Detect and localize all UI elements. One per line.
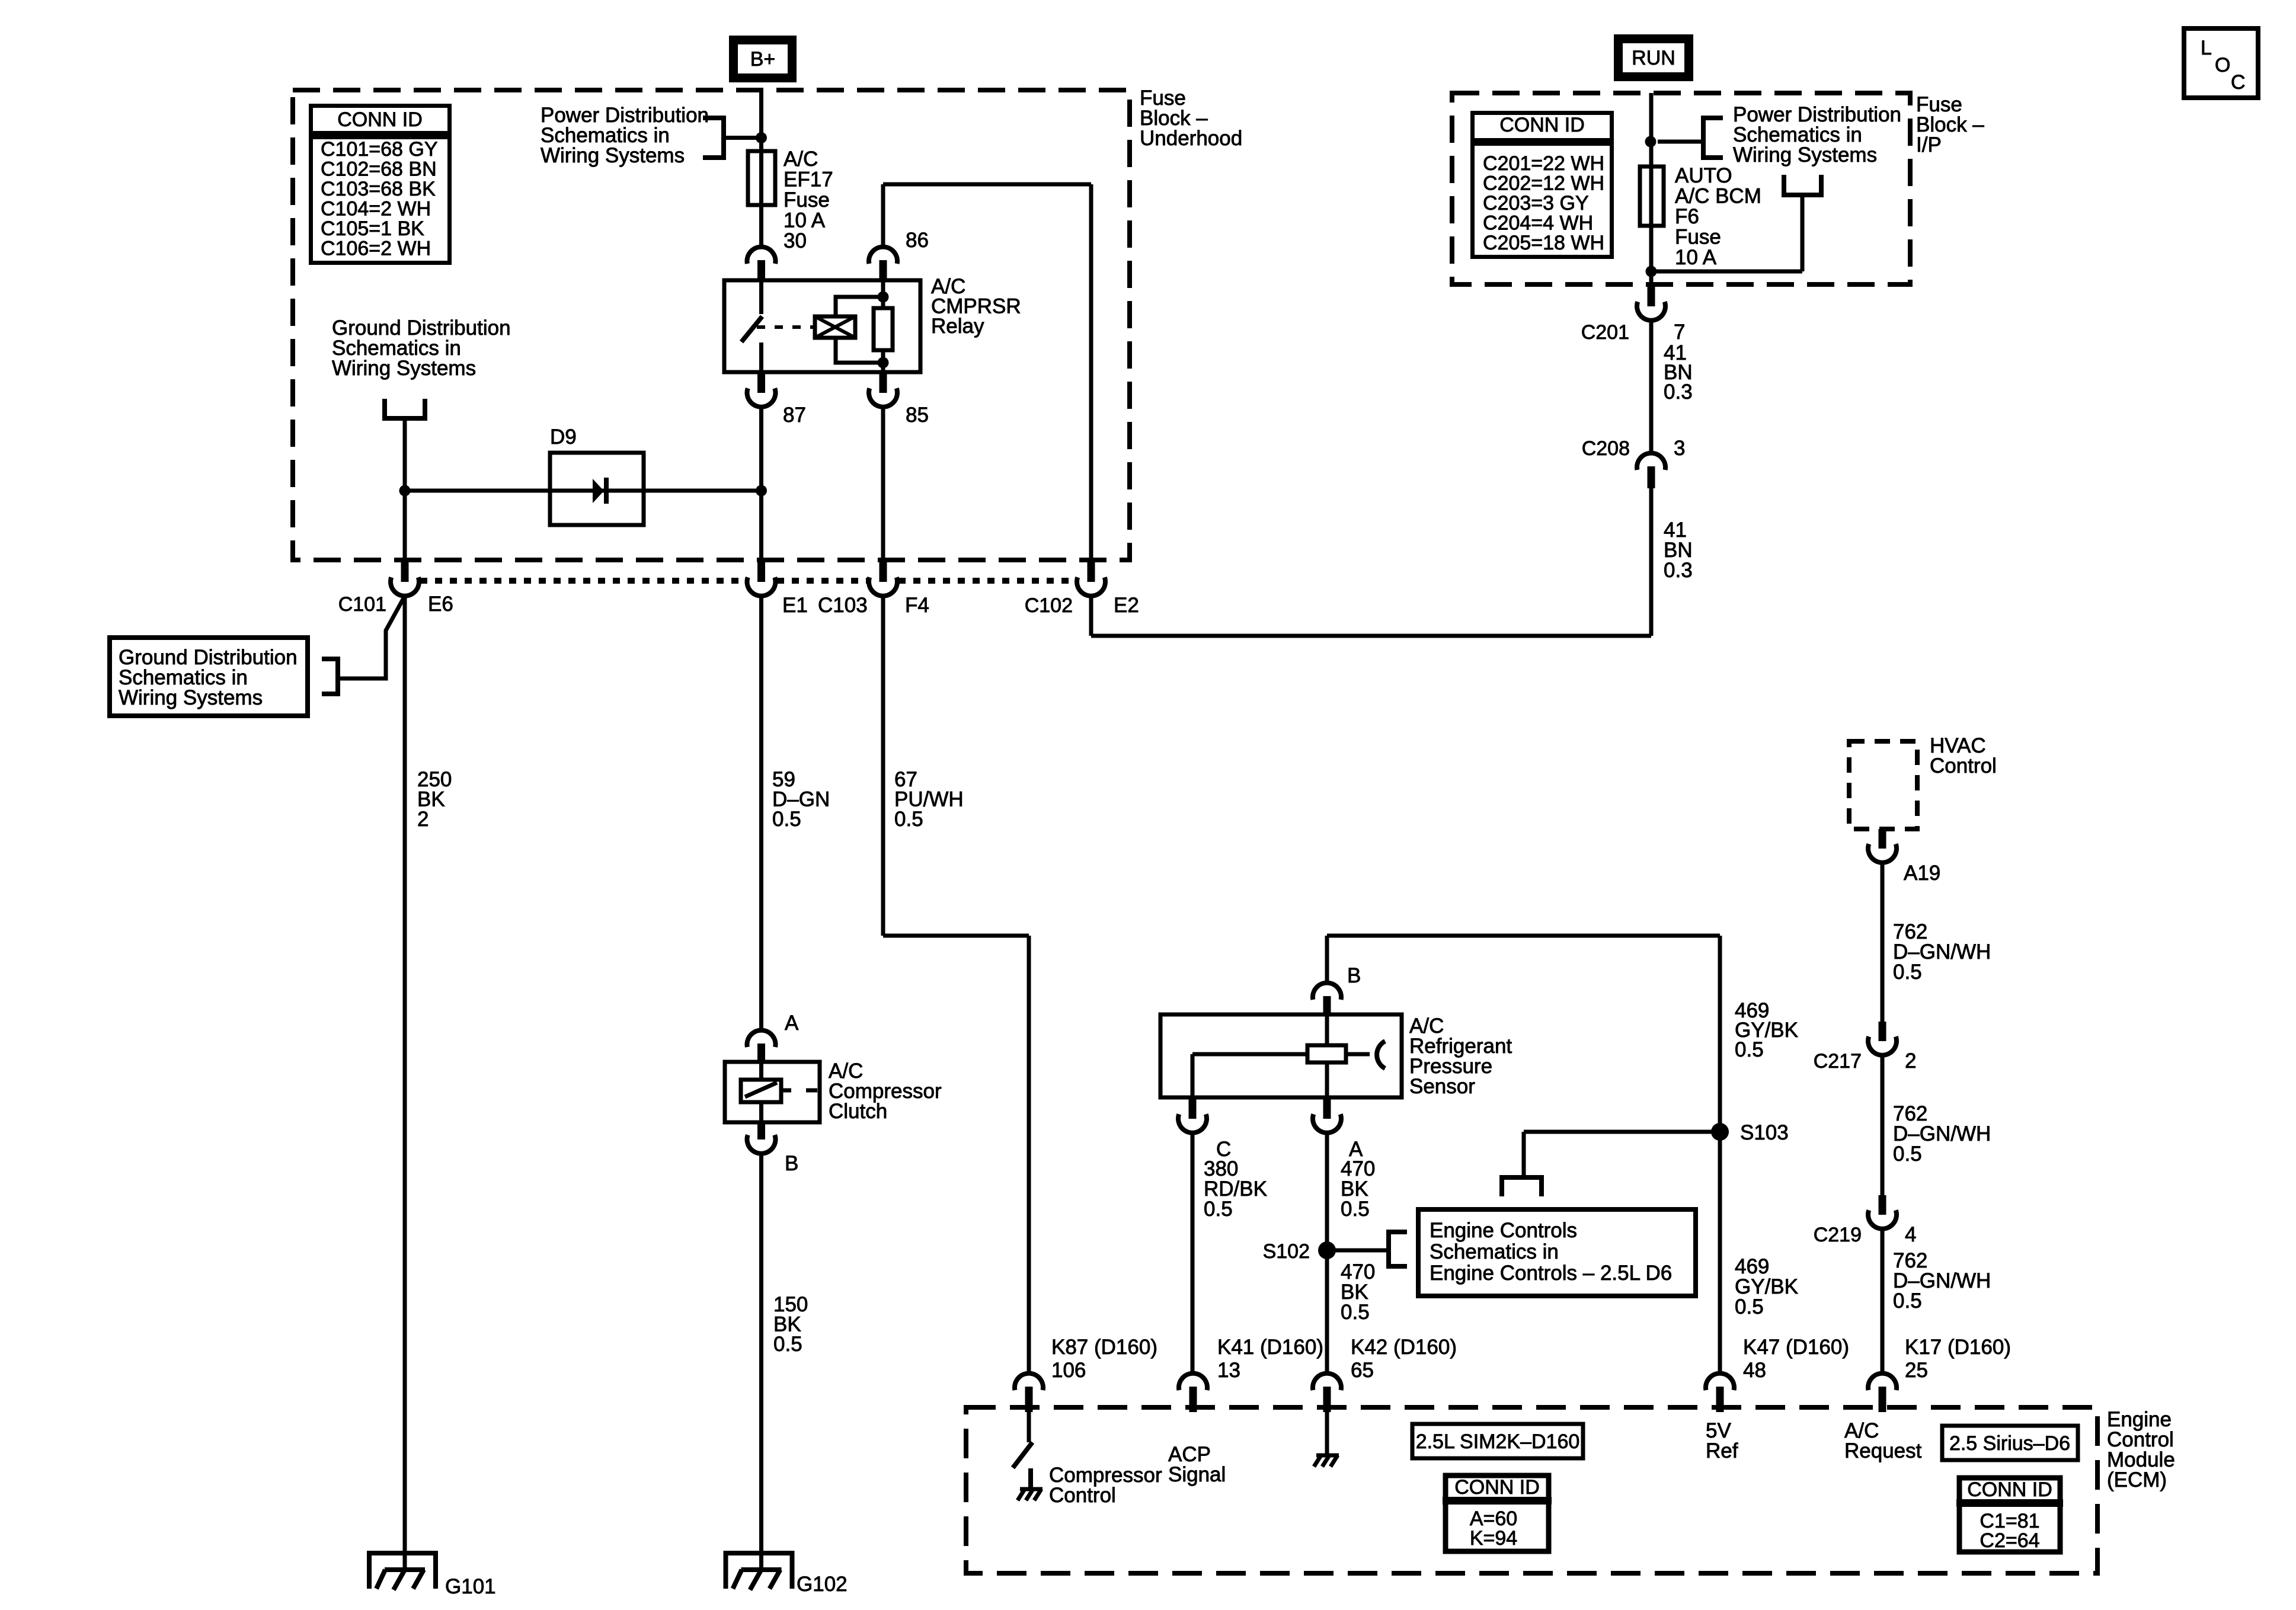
svg-text:EF17: EF17 — [784, 168, 833, 191]
svg-text:C219: C219 — [1814, 1224, 1862, 1246]
svg-text:B+: B+ — [750, 48, 776, 71]
svg-text:0.5: 0.5 — [1204, 1198, 1233, 1221]
svg-text:O: O — [2215, 54, 2230, 76]
svg-text:K42 (D160): K42 (D160) — [1351, 1336, 1457, 1359]
svg-text:C203=3 GY: C203=3 GY — [1483, 192, 1589, 215]
svg-text:Engine Controls – 2.5L D6: Engine Controls – 2.5L D6 — [1430, 1262, 1672, 1285]
svg-text:F4: F4 — [905, 594, 929, 617]
svg-text:K17 (D160): K17 (D160) — [1905, 1336, 2011, 1359]
svg-text:0.3: 0.3 — [1664, 559, 1693, 582]
svg-text:C103: C103 — [818, 594, 868, 617]
svg-text:0.5: 0.5 — [1735, 1295, 1764, 1318]
svg-text:G102: G102 — [797, 1573, 848, 1596]
svg-text:C202=12 WH: C202=12 WH — [1483, 172, 1604, 195]
svg-text:E6: E6 — [428, 593, 453, 616]
svg-text:A/C BCM: A/C BCM — [1675, 185, 1761, 208]
svg-text:Control: Control — [1049, 1484, 1116, 1507]
svg-text:B: B — [785, 1152, 798, 1175]
svg-text:C104=2 WH: C104=2 WH — [321, 198, 431, 220]
svg-text:Wiring Systems: Wiring Systems — [332, 357, 476, 380]
svg-text:106: 106 — [1051, 1359, 1086, 1382]
svg-text:2: 2 — [1905, 1049, 1916, 1073]
svg-text:Fuse: Fuse — [784, 188, 830, 212]
svg-text:48: 48 — [1743, 1359, 1766, 1382]
svg-text:C102=68 BN: C102=68 BN — [321, 158, 437, 181]
svg-text:C101: C101 — [338, 593, 386, 616]
svg-text:CONN ID: CONN ID — [337, 108, 423, 131]
svg-text:86: 86 — [906, 229, 929, 252]
svg-text:2.5 Sirius–D6: 2.5 Sirius–D6 — [1949, 1432, 2070, 1455]
svg-text:2: 2 — [417, 808, 428, 831]
svg-text:RUN: RUN — [1632, 47, 1675, 69]
svg-text:13: 13 — [1217, 1359, 1240, 1382]
svg-text:F6: F6 — [1675, 205, 1699, 228]
svg-text:E1: E1 — [782, 594, 808, 617]
svg-text:65: 65 — [1351, 1359, 1374, 1382]
svg-text:0.5: 0.5 — [1341, 1301, 1370, 1324]
svg-text:C2=64: C2=64 — [1980, 1529, 2039, 1552]
svg-text:Request: Request — [1844, 1439, 1922, 1462]
svg-text:Control: Control — [1930, 754, 1997, 777]
svg-text:AUTO: AUTO — [1675, 164, 1732, 187]
svg-text:CONN ID: CONN ID — [1499, 114, 1585, 136]
svg-text:10 A: 10 A — [784, 209, 826, 232]
svg-text:Signal: Signal — [1168, 1463, 1226, 1486]
svg-text:C105=1 BK: C105=1 BK — [321, 217, 424, 240]
svg-text:0.5: 0.5 — [1893, 961, 1922, 984]
svg-text:Schematics in: Schematics in — [1430, 1240, 1559, 1263]
svg-text:A/C: A/C — [784, 148, 818, 171]
svg-text:Fuse: Fuse — [1675, 226, 1721, 249]
svg-text:10 A: 10 A — [1675, 246, 1717, 269]
svg-text:C204=4 WH: C204=4 WH — [1483, 212, 1593, 235]
svg-text:I/P: I/P — [1916, 133, 1942, 156]
svg-text:25: 25 — [1905, 1359, 1928, 1382]
svg-text:0.5: 0.5 — [1893, 1289, 1922, 1313]
svg-text:0.3: 0.3 — [1664, 380, 1693, 404]
svg-text:C217: C217 — [1814, 1050, 1862, 1073]
svg-text:0.5: 0.5 — [1893, 1142, 1922, 1166]
svg-text:S102: S102 — [1263, 1240, 1310, 1263]
svg-text:30: 30 — [784, 229, 807, 252]
svg-text:Wiring Systems: Wiring Systems — [119, 686, 263, 709]
svg-text:Ref: Ref — [1706, 1439, 1738, 1462]
svg-text:A: A — [785, 1012, 799, 1035]
svg-text:0.5: 0.5 — [772, 808, 801, 831]
svg-text:K87 (D160): K87 (D160) — [1051, 1336, 1157, 1359]
svg-text:C103=68 BK: C103=68 BK — [321, 178, 436, 200]
svg-text:K41 (D160): K41 (D160) — [1217, 1336, 1323, 1359]
svg-text:K47 (D160): K47 (D160) — [1743, 1336, 1849, 1359]
svg-text:C201=22 WH: C201=22 WH — [1483, 152, 1604, 175]
svg-text:85: 85 — [906, 404, 929, 427]
svg-text:Engine Controls: Engine Controls — [1430, 1219, 1577, 1242]
svg-text:A19: A19 — [1904, 862, 1940, 885]
svg-text:Wiring Systems: Wiring Systems — [1733, 143, 1877, 167]
svg-text:Relay: Relay — [931, 315, 984, 338]
svg-text:0.5: 0.5 — [1341, 1198, 1370, 1221]
svg-text:0.5: 0.5 — [773, 1333, 802, 1356]
svg-text:Underhood: Underhood — [1140, 127, 1242, 150]
svg-text:C102: C102 — [1025, 594, 1073, 617]
svg-text:CONN ID: CONN ID — [1454, 1476, 1540, 1499]
svg-text:Wiring Systems: Wiring Systems — [541, 144, 685, 167]
svg-text:C205=18 WH: C205=18 WH — [1483, 232, 1604, 254]
svg-text:C208: C208 — [1582, 437, 1630, 460]
svg-text:E2: E2 — [1114, 594, 1139, 617]
svg-text:C201: C201 — [1581, 321, 1629, 344]
svg-text:S103: S103 — [1740, 1121, 1789, 1144]
svg-text:2.5L SIM2K–D160: 2.5L SIM2K–D160 — [1416, 1430, 1580, 1453]
svg-text:(ECM): (ECM) — [2107, 1468, 2167, 1491]
svg-text:D9: D9 — [550, 425, 577, 449]
svg-text:4: 4 — [1905, 1223, 1916, 1246]
svg-text:87: 87 — [783, 404, 806, 427]
svg-text:B: B — [1347, 964, 1361, 987]
svg-text:0.5: 0.5 — [1735, 1038, 1764, 1061]
svg-text:CONN ID: CONN ID — [1967, 1478, 2052, 1501]
svg-text:K=94: K=94 — [1470, 1527, 1517, 1550]
svg-text:7: 7 — [1674, 321, 1685, 344]
svg-text:3: 3 — [1674, 437, 1685, 460]
svg-text:Clutch: Clutch — [829, 1100, 887, 1123]
svg-text:G101: G101 — [445, 1575, 496, 1598]
svg-text:C101=68 GY: C101=68 GY — [321, 138, 438, 161]
svg-text:L: L — [2201, 37, 2212, 59]
svg-text:0.5: 0.5 — [894, 808, 923, 831]
svg-text:C: C — [2231, 71, 2246, 94]
svg-text:Sensor: Sensor — [1409, 1075, 1475, 1098]
svg-text:C106=2 WH: C106=2 WH — [321, 238, 431, 260]
